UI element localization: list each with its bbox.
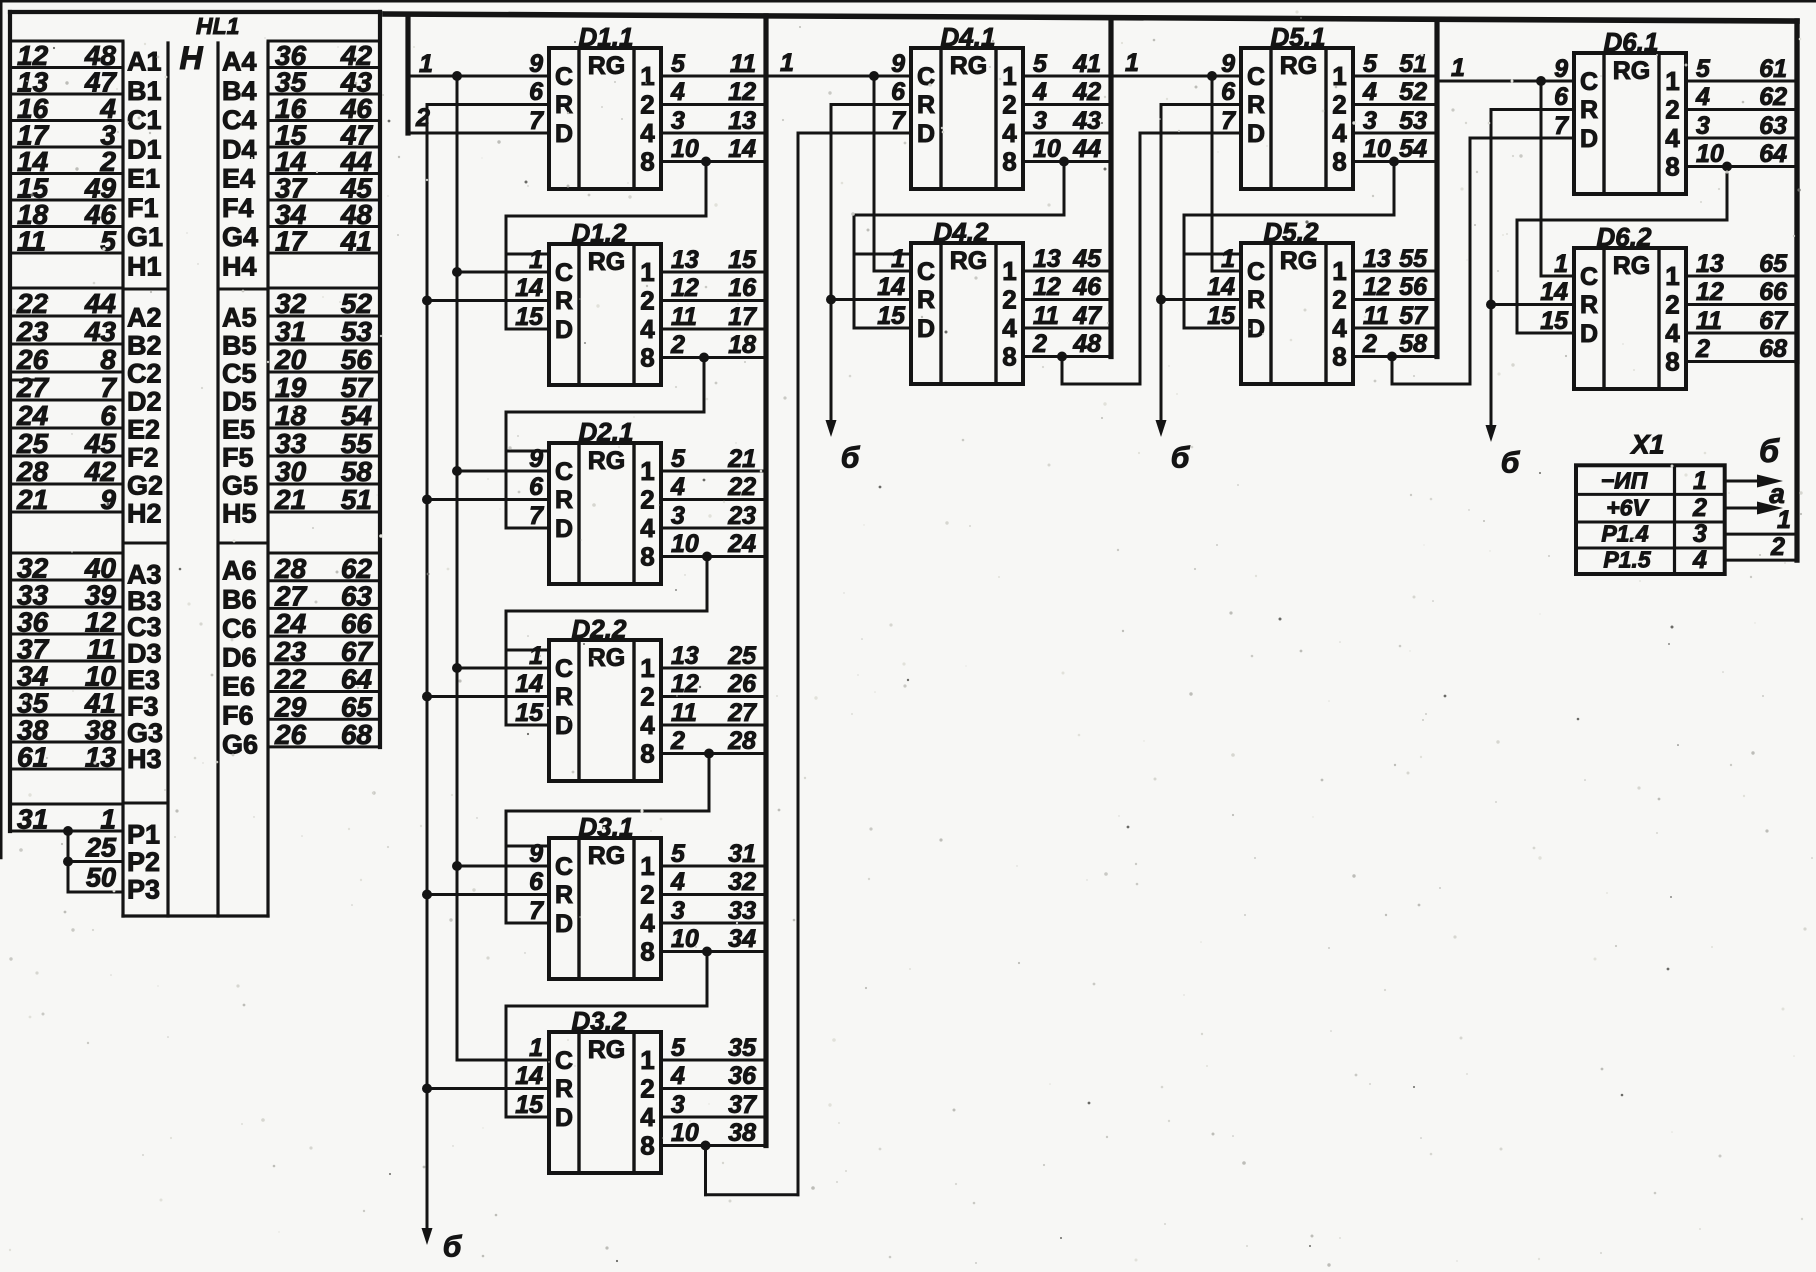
svg-text:RG: RG: [588, 52, 626, 80]
svg-text:4: 4: [670, 1062, 685, 1090]
junction D6.1 output: [1722, 162, 1732, 172]
svg-text:43: 43: [84, 316, 117, 347]
svg-text:9: 9: [891, 50, 905, 78]
wire data input to pin 7 of D5.1: [1140, 132, 1241, 135]
svg-text:51: 51: [341, 484, 372, 515]
wires D4.1 outputs to bus: [1023, 76, 1111, 162]
junction reset/D6.2: [1486, 300, 1496, 310]
pin numbers D1.2 outputs 13/12/11/2: [670, 246, 699, 359]
svg-text:R: R: [555, 287, 573, 315]
svg-text:P1.5: P1.5: [1603, 547, 1652, 573]
svg-text:30: 30: [275, 456, 307, 487]
svg-text:4: 4: [670, 868, 685, 896]
net numbers D5.1 outputs 51/52/53/54: [1399, 50, 1427, 163]
svg-text:1: 1: [640, 851, 654, 881]
svg-text:4: 4: [640, 1102, 655, 1132]
svg-text:2: 2: [1332, 285, 1346, 315]
wire net (data) to pin 7 of D1.1: [408, 132, 549, 135]
svg-text:52: 52: [1399, 78, 1427, 106]
svg-text:14: 14: [728, 135, 756, 163]
svg-text:15: 15: [515, 699, 544, 727]
svg-text:13: 13: [671, 246, 699, 274]
HL1 pin table left group 3 (nets 32..61 / pins 40..13): [10, 552, 123, 772]
junction clock/D5.1: [1207, 71, 1217, 81]
HL1 segment labels A2-H2: [123, 302, 168, 543]
pin box notch D5.2: [1184, 253, 1241, 256]
svg-text:C: C: [555, 63, 573, 91]
svg-text:25: 25: [85, 833, 117, 863]
svg-text:F4: F4: [222, 193, 254, 223]
junction D2.2 output: [704, 749, 714, 759]
arrow net b: [1486, 425, 1497, 442]
svg-text:4: 4: [1362, 78, 1377, 106]
HL1 pin cell 50 (to P3): [68, 863, 123, 893]
svg-text:22: 22: [274, 664, 307, 695]
svg-text:16: 16: [728, 274, 757, 302]
svg-text:B2: B2: [127, 330, 162, 360]
scan frame left edge: [0, 0, 3, 858]
pin numbers D2.2 outputs 13/12/11/2: [670, 642, 699, 755]
svg-text:11: 11: [730, 50, 756, 78]
svg-text:2: 2: [670, 331, 685, 359]
svg-text:6: 6: [891, 78, 906, 106]
svg-text:5: 5: [671, 50, 686, 78]
svg-text:42: 42: [84, 456, 117, 487]
svg-text:31: 31: [728, 840, 756, 868]
svg-text:8: 8: [1002, 147, 1016, 177]
svg-text:10: 10: [671, 135, 699, 163]
svg-text:1: 1: [100, 803, 116, 834]
svg-text:2: 2: [1332, 90, 1346, 120]
svg-text:17: 17: [275, 226, 308, 257]
svg-text:D: D: [555, 910, 573, 938]
junction on pin-25 wire: [63, 857, 73, 867]
svg-text:−ИП: −ИП: [1601, 468, 1648, 494]
svg-text:1: 1: [780, 49, 794, 77]
wire feedback D1.2 pin10 to D2.1 pin D: [506, 358, 704, 529]
svg-text:20: 20: [274, 344, 307, 375]
wire net 1 to pin 9 of D1.1: [408, 75, 549, 78]
svg-text:57: 57: [1399, 302, 1428, 330]
wire data input to pin 7 of D6.1: [1470, 137, 1574, 140]
svg-text:1: 1: [1002, 256, 1016, 286]
svg-text:28: 28: [274, 553, 307, 584]
svg-text:R: R: [555, 683, 573, 711]
svg-text:D5: D5: [222, 386, 257, 416]
svg-text:3: 3: [1693, 520, 1707, 548]
svg-text:15: 15: [515, 303, 544, 331]
pin numbers D4.2 inputs 1/14/15: [877, 245, 906, 330]
net numbers D3.2 outputs 35/36/37/38: [728, 1034, 757, 1147]
svg-text:R: R: [917, 91, 935, 119]
svg-text:2: 2: [1665, 290, 1679, 320]
svg-text:62: 62: [1759, 83, 1787, 111]
svg-text:1: 1: [1002, 61, 1016, 91]
svg-text:X1: X1: [1629, 429, 1664, 459]
wire feedback D2.1 pin10 to D2.2 pin D: [506, 557, 707, 726]
svg-text:22: 22: [727, 473, 756, 501]
svg-text:C: C: [555, 1047, 573, 1075]
svg-text:13: 13: [1696, 250, 1724, 278]
register D4.1: [911, 48, 1023, 189]
svg-text:1: 1: [640, 257, 654, 287]
svg-text:11: 11: [17, 226, 46, 257]
svg-text:2: 2: [1032, 330, 1047, 358]
svg-text:67: 67: [341, 636, 374, 667]
junction D5.2 output: [1387, 352, 1397, 362]
svg-text:2: 2: [640, 880, 654, 910]
svg-text:4: 4: [670, 78, 685, 106]
pin numbers D6.2 outputs 13/12/11/2: [1695, 250, 1724, 363]
pin numbers D3.1 inputs 9/6/7: [529, 840, 544, 925]
svg-text:23: 23: [727, 502, 756, 530]
wire clock branch to pin C of D4.2: [874, 76, 911, 271]
svg-text:66: 66: [341, 608, 373, 639]
arrow net b: [1156, 420, 1167, 437]
wires D1.1 outputs to bus: [661, 76, 766, 162]
svg-text:68: 68: [1759, 335, 1787, 363]
svg-text:8: 8: [1332, 342, 1346, 372]
junction reset/D3.2: [422, 1084, 432, 1094]
svg-text:D3.1: D3.1: [579, 812, 634, 842]
svg-text:б: б: [1171, 442, 1191, 475]
svg-text:10: 10: [1696, 140, 1724, 168]
svg-text:R: R: [555, 881, 573, 909]
svg-text:a: a: [1769, 478, 1785, 509]
wire reset to pin R of D1.2: [427, 299, 549, 302]
wire clock branch (vertical) section 1: [456, 76, 459, 1060]
svg-text:61: 61: [1759, 55, 1787, 83]
svg-text:26: 26: [727, 670, 757, 698]
net numbers D1.1 outputs 11/12/13/14: [728, 50, 756, 163]
junction reset/D4.2: [826, 295, 836, 305]
svg-text:31: 31: [17, 803, 48, 834]
svg-text:E1: E1: [127, 164, 160, 194]
svg-text:4: 4: [1032, 78, 1047, 106]
svg-text:RG: RG: [588, 1036, 626, 1064]
svg-text:27: 27: [274, 581, 308, 612]
wire net 1 (clock) entry, section 1: [405, 14, 410, 133]
svg-text:3: 3: [671, 1091, 685, 1119]
wire reset net (vertical) section 1 to net b: [426, 105, 429, 1229]
svg-text:12: 12: [1696, 278, 1724, 306]
svg-text:C: C: [917, 63, 935, 91]
pin box notch D2.2: [506, 649, 549, 652]
svg-text:18: 18: [728, 331, 756, 359]
wire feedback D5.1 pin10 to D5.2 pin D: [1184, 162, 1394, 329]
register D4.2: [911, 243, 1023, 384]
bus line right edge (net 1/2 riser): [1794, 21, 1799, 560]
svg-text:1: 1: [529, 1034, 543, 1062]
svg-text:62: 62: [341, 553, 373, 584]
svg-text:55: 55: [341, 428, 373, 459]
svg-text:48: 48: [1072, 330, 1101, 358]
svg-text:14: 14: [515, 1062, 543, 1090]
svg-text:2: 2: [640, 286, 654, 316]
svg-text:15: 15: [1207, 302, 1236, 330]
svg-text:1: 1: [891, 245, 905, 273]
pin numbers D4.1 outputs 5/4/3/10: [1032, 50, 1061, 163]
svg-text:F6: F6: [222, 701, 254, 731]
svg-text:2: 2: [1002, 285, 1016, 315]
wire net 1 (clock) to pin 9 of D4.1: [766, 75, 911, 78]
svg-text:29: 29: [274, 691, 307, 722]
pin numbers D3.2 inputs 1/14/15: [515, 1034, 544, 1119]
svg-text:R: R: [1247, 286, 1265, 314]
svg-text:8: 8: [1002, 342, 1016, 372]
svg-text:54: 54: [1399, 135, 1427, 163]
svg-text:1: 1: [1693, 467, 1707, 495]
svg-text:R: R: [555, 1075, 573, 1103]
svg-text:6: 6: [1554, 83, 1569, 111]
svg-text:12: 12: [728, 78, 756, 106]
svg-text:4: 4: [1332, 313, 1347, 343]
wires D2.1 outputs to bus: [661, 471, 766, 557]
svg-text:46: 46: [1072, 273, 1102, 301]
svg-text:13: 13: [1363, 245, 1391, 273]
svg-text:D: D: [555, 316, 573, 344]
register D2.1: [549, 443, 661, 584]
svg-text:D2.1: D2.1: [579, 417, 634, 447]
svg-text:24: 24: [16, 400, 49, 431]
wires D4.2 outputs to bus: [1023, 271, 1111, 357]
svg-text:D1.1: D1.1: [579, 22, 634, 52]
wire net 1 (clock) to pin 9 of D6.1: [1437, 80, 1574, 83]
svg-text:58: 58: [1399, 330, 1427, 358]
svg-text:2: 2: [640, 682, 654, 712]
wire reset to pin R of D3.2: [427, 1087, 549, 1090]
svg-text:9: 9: [1554, 55, 1568, 83]
svg-text:58: 58: [341, 456, 373, 487]
svg-text:B1: B1: [127, 76, 162, 106]
svg-text:14: 14: [515, 274, 543, 302]
svg-text:H5: H5: [222, 499, 257, 529]
HL1 pin table right group 2 (32..21 / 52..51): [268, 288, 380, 515]
bus line (top horizontal): [385, 14, 1797, 21]
svg-text:C4: C4: [222, 105, 257, 135]
wires D6.2 outputs to bus: [1686, 276, 1797, 362]
svg-text:8: 8: [640, 147, 654, 177]
svg-text:26: 26: [16, 344, 49, 375]
svg-text:4: 4: [1695, 83, 1710, 111]
svg-text:2: 2: [1692, 494, 1707, 522]
pin box notch D2.1: [506, 450, 549, 453]
svg-text:15: 15: [1540, 307, 1569, 335]
wires D3.1 outputs to bus: [661, 866, 766, 952]
svg-text:4: 4: [1665, 123, 1680, 153]
register D5.2: [1241, 243, 1353, 384]
wire feedback D6.1 pin10 to D6.2 pin D: [1517, 167, 1727, 334]
svg-text:б: б: [1759, 433, 1780, 469]
svg-text:R: R: [917, 286, 935, 314]
pin numbers D5.1 inputs 9/6/7: [1221, 50, 1236, 135]
pin numbers D3.1 outputs 5/4/3/10: [670, 840, 699, 953]
svg-text:18: 18: [275, 400, 307, 431]
svg-text:RG: RG: [950, 52, 988, 80]
register D6.1: [1574, 53, 1686, 194]
svg-text:D: D: [555, 515, 573, 543]
svg-text:1: 1: [1451, 54, 1465, 82]
pin numbers D1.1 inputs 9/6/7: [529, 50, 544, 135]
svg-text:21: 21: [274, 484, 306, 515]
svg-text:6: 6: [529, 78, 544, 106]
svg-text:41: 41: [1072, 50, 1101, 78]
scan frame top edge: [0, 0, 1816, 3]
wire reset net section 4 to net b: [1491, 110, 1574, 426]
HL1 segment labels A6-G6: [222, 556, 258, 760]
svg-text:27: 27: [16, 372, 50, 403]
pin numbers D1.1 outputs 5/4/3/10: [670, 50, 699, 163]
svg-text:A2: A2: [127, 302, 162, 332]
HL1 pin cell 25 (to P2): [68, 833, 123, 863]
net numbers D2.1 outputs 21/22/23/24: [727, 445, 756, 558]
net numbers D5.2 outputs 55/56/57/58: [1399, 245, 1428, 358]
svg-text:33: 33: [728, 897, 756, 925]
svg-text:RG: RG: [950, 247, 988, 275]
svg-text:23: 23: [274, 636, 307, 667]
svg-text:7: 7: [529, 107, 544, 135]
junction reset/D2.2: [422, 692, 432, 702]
HL1 segment labels A5-H5: [218, 302, 268, 543]
wire reset net section 3 to net b: [1161, 105, 1241, 421]
wire feedback D3.1 pin10 to D3.2 pin D: [506, 952, 707, 1118]
wire clock branch to pin C of D6.2: [1541, 81, 1574, 276]
junction reset/D3.1: [422, 890, 432, 900]
svg-text:D: D: [1580, 320, 1598, 348]
svg-text:1: 1: [1332, 256, 1346, 286]
wire reset to pin R of D2.1: [427, 498, 549, 501]
svg-text:63: 63: [1759, 112, 1787, 140]
svg-text:б: б: [841, 442, 861, 475]
svg-text:43: 43: [1072, 107, 1101, 135]
svg-text:68: 68: [341, 719, 373, 750]
junction D1.1 output: [701, 157, 711, 167]
net numbers D3.1 outputs 31/32/33/34: [728, 840, 756, 953]
svg-text:1: 1: [1332, 61, 1346, 91]
svg-text:14: 14: [1207, 273, 1235, 301]
svg-text:5: 5: [671, 445, 686, 473]
svg-text:9: 9: [100, 484, 116, 515]
net numbers D4.2 outputs 45/46/47/48: [1072, 245, 1102, 358]
svg-text:3: 3: [671, 897, 685, 925]
register D6.2: [1574, 248, 1686, 389]
svg-text:5: 5: [1696, 55, 1711, 83]
wire X1 pin1 to net b: [1725, 480, 1757, 483]
pin numbers D4.2 outputs 13/12/11/2: [1032, 245, 1061, 358]
svg-text:2: 2: [1695, 335, 1710, 363]
svg-text:9: 9: [529, 840, 543, 868]
svg-text:E4: E4: [222, 164, 255, 194]
svg-text:25: 25: [727, 642, 757, 670]
wires D5.1 outputs to bus: [1353, 76, 1437, 162]
svg-text:7: 7: [1221, 107, 1236, 135]
HL1 pin row 31 / 1: [10, 803, 123, 834]
svg-text:61: 61: [17, 741, 48, 772]
svg-text:G2: G2: [127, 470, 163, 500]
svg-text:5: 5: [100, 226, 116, 257]
wire carry D3.2 pin10 to D4.1 pin D: [706, 133, 799, 1195]
svg-text:C: C: [555, 259, 573, 287]
svg-text:15: 15: [515, 1091, 544, 1119]
svg-text:10: 10: [1033, 135, 1061, 163]
svg-text:64: 64: [341, 664, 373, 695]
svg-text:14: 14: [515, 670, 543, 698]
junction D3.2 output: [701, 1141, 711, 1151]
svg-text:R: R: [1247, 91, 1265, 119]
svg-text:6: 6: [529, 473, 544, 501]
wire to P1/P2/P3: [67, 831, 70, 892]
bus line section 3: [1434, 19, 1439, 356]
svg-text:65: 65: [1759, 250, 1788, 278]
wire net 2 to pin 6 of D1.1: [427, 103, 549, 106]
svg-text:H4: H4: [222, 252, 257, 282]
svg-text:G4: G4: [222, 222, 258, 252]
svg-text:11: 11: [671, 699, 697, 727]
svg-text:21: 21: [727, 445, 756, 473]
svg-text:D: D: [1247, 120, 1265, 148]
svg-text:35: 35: [728, 1034, 757, 1062]
svg-text:H: H: [179, 40, 203, 76]
pin numbers D6.1 outputs 5/4/3/10: [1695, 55, 1724, 168]
wires D1.2 outputs to bus: [661, 272, 766, 358]
svg-text:2: 2: [1362, 330, 1377, 358]
wire clock branch to pin C of D5.2: [1212, 76, 1241, 271]
wire data input to pin 7 of D4.1: [798, 132, 911, 135]
wire clock to pin C of D2.2: [457, 667, 549, 670]
svg-text:7: 7: [529, 897, 544, 925]
svg-text:37: 37: [728, 1091, 757, 1119]
svg-text:66: 66: [1759, 278, 1788, 306]
svg-text:4: 4: [640, 710, 655, 740]
svg-text:1: 1: [1125, 49, 1139, 77]
svg-text:P2: P2: [127, 847, 160, 877]
svg-text:8: 8: [1665, 347, 1679, 377]
svg-text:4: 4: [640, 513, 655, 543]
svg-text:4: 4: [1665, 318, 1680, 348]
pin numbers D5.1 outputs 5/4/3/10: [1362, 50, 1391, 163]
svg-text:G6: G6: [222, 730, 258, 760]
svg-text:C: C: [1247, 258, 1265, 286]
svg-text:65: 65: [341, 691, 373, 722]
svg-text:A4: A4: [222, 47, 257, 77]
junction D4.1 output: [1059, 157, 1069, 167]
svg-text:12: 12: [1363, 273, 1391, 301]
svg-text:32: 32: [728, 868, 756, 896]
svg-text:E5: E5: [222, 414, 255, 444]
svg-text:5: 5: [671, 840, 686, 868]
svg-text:9: 9: [529, 445, 543, 473]
svg-text:44: 44: [84, 288, 117, 319]
svg-text:24: 24: [274, 608, 307, 639]
svg-text:B5: B5: [222, 330, 257, 360]
svg-text:C: C: [1580, 68, 1598, 96]
svg-text:53: 53: [1399, 107, 1427, 135]
junction clock/D3.1: [452, 861, 462, 871]
pin numbers D5.2 inputs 1/14/15: [1207, 245, 1236, 330]
arrow net b (X1): [1757, 475, 1783, 488]
svg-text:47: 47: [1072, 302, 1102, 330]
svg-text:2: 2: [640, 1074, 654, 1104]
svg-text:D3.2: D3.2: [572, 1006, 627, 1036]
svg-text:RG: RG: [588, 447, 626, 475]
wire clock to pin C of D3.1: [457, 865, 549, 868]
svg-text:22: 22: [16, 288, 49, 319]
wire reset to pin R of D3.1: [427, 893, 549, 896]
svg-text:21: 21: [16, 484, 48, 515]
svg-text:7: 7: [1554, 112, 1569, 140]
svg-text:2: 2: [1002, 90, 1016, 120]
svg-text:10: 10: [671, 1119, 699, 1147]
